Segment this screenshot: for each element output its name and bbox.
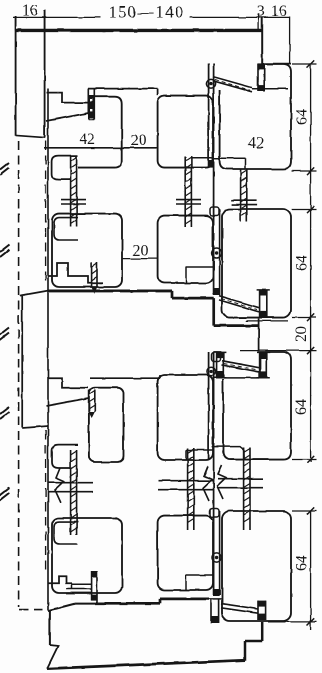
screw S2 plate [61, 200, 86, 204]
sill slope [48, 604, 96, 611]
row3 interlock bar [222, 361, 259, 372]
screw S10 shaft [89, 390, 95, 412]
row1 curl profile [52, 156, 78, 180]
svg-text:20: 20 [293, 326, 310, 342]
transom step [172, 291, 259, 326]
row3 left chamber box [89, 388, 124, 462]
sill right staircase [245, 622, 262, 660]
row1 left step profile [47, 93, 89, 103]
row1 middle inner step [191, 157, 213, 159]
sill channel left [92, 571, 97, 604]
row4 left chamber box [52, 518, 122, 593]
row1 diagonal bar [213, 77, 252, 92]
transom top line [48, 289, 172, 292]
extension line right y459.5 [292, 459, 317, 461]
row2 left bracket [48, 263, 103, 283]
row1 sash top line [88, 89, 158, 96]
transom channel dark bottom [259, 311, 267, 318]
row1 left slope [46, 113, 89, 121]
mullion line b [213, 64, 215, 296]
row3 right inner bottom line [212, 447, 245, 459]
screw S10 hatch [89, 391, 95, 409]
svg-text:42: 42 [79, 131, 95, 148]
row1 diagonal dash [215, 80, 250, 91]
bottom interlock left dark [211, 616, 219, 623]
extension line x44 [44, 17, 46, 31]
row3 left slope [46, 398, 89, 406]
extension line right y511 [292, 510, 317, 512]
wall outer edge [15, 16, 17, 136]
row1 right chamber box [220, 64, 291, 169]
extension line left x15 [15, 17, 17, 31]
row3 right chamber box [223, 352, 291, 460]
frame head ledge [262, 63, 291, 65]
extension line right y350 [240, 350, 317, 352]
screw S8 shaft [188, 448, 194, 530]
transom slope [20, 291, 48, 296]
mullion line e [213, 352, 215, 595]
row3 channel left flanges [214, 352, 226, 377]
extension line x289 [289, 17, 291, 64]
mullion line f [219, 511, 221, 595]
break zigzag left [55, 468, 64, 503]
row2 left chamber box [52, 214, 122, 287]
mullion line c [219, 209, 221, 295]
extension line right y209.5 [292, 209, 317, 211]
screw S3 plate [176, 200, 201, 204]
sill clip castellation [48, 576, 72, 583]
svg-text:3: 3 [257, 3, 265, 20]
row3 channel right [260, 352, 267, 378]
tick right y209.5 [307, 206, 314, 213]
svg-text:64: 64 [294, 255, 311, 271]
jamb line x44 [44, 10, 46, 138]
bottom interlock channel right [258, 601, 266, 620]
screw S3 hatch [185, 157, 191, 224]
step to row3 box [258, 319, 260, 352]
dashed wall elbow [19, 609, 46, 611]
svg-text:16: 16 [22, 3, 38, 20]
transom channel [260, 290, 267, 318]
sash face line x48 [47, 89, 49, 611]
mullion line a [208, 64, 210, 168]
row1 right inner top line [252, 88, 288, 90]
sill clip bars [66, 583, 91, 593]
mullion dark block row4 [213, 589, 219, 596]
row1 glazing channel S1 [88, 89, 94, 120]
row3 channel right flanges [257, 352, 270, 377]
wall corner [16, 135, 45, 137]
break lines middle [158, 481, 214, 490]
row3 sash top line [90, 375, 160, 378]
transom diagonal dash [221, 299, 257, 310]
row3 left step profile [48, 378, 88, 388]
screw S8 hatch [188, 449, 194, 523]
screw S9 shaft [244, 447, 250, 530]
dim line 20 row2 [122, 258, 158, 260]
dashed wall line [18, 141, 20, 607]
row4 middle inner step [186, 575, 213, 590]
svg-text:16: 16 [271, 3, 287, 20]
row1 channel dark bottom [258, 85, 265, 91]
tick right y459.5 [307, 456, 314, 463]
row2 middle chamber box [158, 216, 213, 283]
screw S4 hatch [241, 170, 247, 216]
row2 right chamber box [222, 209, 291, 318]
row3 channel left darks [216, 353, 224, 359]
row1 sill line 42-20 [44, 147, 158, 149]
screw S7 hatch [71, 451, 77, 532]
wall hatch mark 5 [0, 488, 9, 500]
transom channel dark top [259, 290, 267, 296]
wall hatch mark 3 [0, 328, 9, 340]
break zigzag middle [203, 466, 212, 501]
screw S10 tip [89, 412, 95, 418]
tick right y350.6 [307, 347, 314, 354]
transom channel flange [257, 289, 270, 291]
svg-text:64: 64 [293, 399, 310, 415]
break zigzag right [217, 465, 226, 499]
wall hatch mark 1 [0, 163, 9, 175]
bottom interlock bar [221, 604, 258, 614]
screw S2 shaft [71, 156, 77, 227]
sill break notch [47, 645, 58, 669]
sill channel left darks [91, 571, 97, 577]
row1 right inner bottom line [212, 158, 245, 168]
row3 curl profile [52, 445, 78, 468]
mullion cap row3 [212, 353, 221, 362]
left pier box [22, 295, 48, 428]
svg-text:64: 64 [294, 109, 311, 125]
bottom interlock right darks [258, 601, 266, 607]
extension line right y317.5 [292, 317, 317, 319]
screw S9 hatch [244, 448, 250, 522]
tick right y317.5 [307, 314, 314, 321]
extension line x254 [258, 14, 260, 31]
frame head right step [261, 17, 263, 63]
mullion line d [208, 352, 210, 460]
svg-text:64: 64 [294, 555, 311, 571]
screw S4 plate [232, 200, 257, 204]
roller circle row2 [212, 248, 222, 258]
row1 channel dark top [258, 63, 265, 69]
row3 middle chamber box [158, 375, 213, 460]
screw S2 hatch [71, 157, 77, 224]
row1 middle chamber box [158, 96, 213, 168]
svg-text:20: 20 [133, 243, 149, 260]
row3 channel right darks [259, 353, 267, 359]
row1 S1 white dots [90, 99, 92, 111]
tick right y621.9 [307, 618, 314, 625]
extension line right y64 [292, 63, 317, 65]
dimension line right [310, 64, 312, 630]
sill left edge [49, 611, 51, 645]
extension line right y171 [292, 170, 317, 172]
wall hatch mark 2 [0, 245, 9, 257]
screw S5 shaft [92, 262, 97, 288]
mullion dark block row2 [213, 288, 219, 295]
frame head [15, 29, 262, 32]
break lines right [218, 479, 263, 488]
bottom interlock channel left [211, 599, 219, 623]
dashed line x45 lower [45, 430, 47, 571]
roller circle row3 [207, 367, 216, 376]
tick right y171 [307, 167, 314, 174]
row3 channel left [217, 352, 224, 378]
dashed line x45 upper [45, 141, 47, 286]
row4 right chamber box [222, 511, 291, 621]
mullion cap row2 [210, 207, 219, 216]
roller circle row4 [212, 553, 221, 562]
sill bottom edge [47, 660, 245, 668]
row4 left curl [54, 522, 78, 544]
row2 right box bottom double [246, 320, 288, 322]
row3 right inner lines [224, 352, 261, 378]
row4 middle chamber box [158, 516, 213, 590]
svg-text:42: 42 [248, 135, 264, 152]
mullion dark block row1 [209, 160, 214, 168]
svg-text:20: 20 [131, 132, 147, 149]
bottom interlock left flange [209, 598, 222, 600]
sill top surface [96, 599, 209, 603]
screw S7 shaft [71, 450, 77, 535]
screw S4 shaft [241, 169, 247, 222]
break lines left [48, 483, 93, 492]
screw S3 shaft [185, 156, 191, 227]
wall hatch mark 4 [0, 407, 9, 419]
row1 glazing screw S1 [89, 95, 94, 118]
row3 middle inner step [186, 450, 213, 460]
transom diagonal bar [219, 296, 259, 312]
row2 middle inner step [186, 267, 213, 283]
tick right y64 [307, 60, 314, 67]
row2 left curl [54, 218, 78, 240]
row1 left chamber box [78, 97, 122, 168]
row1 glazing channel [258, 64, 264, 91]
svg-text:150—140: 150—140 [109, 3, 185, 22]
row3 interlock bar dash [224, 364, 257, 370]
screw S5 tip [92, 288, 97, 294]
tick right y511 [307, 507, 314, 514]
roller circle row1 [206, 79, 215, 88]
dimension line top [13, 16, 290, 18]
extension line right y622 [268, 621, 317, 623]
screw S5 hatch [92, 263, 97, 281]
mullion cap row4 [210, 509, 219, 518]
